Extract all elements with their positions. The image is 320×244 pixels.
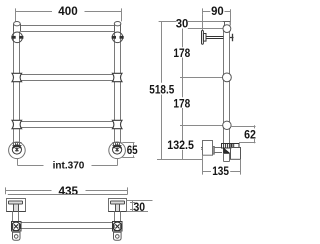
svg-text:435: 435: [59, 184, 79, 198]
dimension 135: [203, 155, 241, 174]
svg-text:90: 90: [211, 4, 224, 18]
side wall plate top bracket: [202, 31, 207, 45]
svg-text:135: 135: [212, 164, 229, 178]
left wall flange: [9, 142, 26, 159]
valve wall box: [201, 141, 213, 156]
right wall flange: [109, 142, 126, 159]
valve outlet box: [231, 148, 241, 160]
right plate T detail: [109, 201, 127, 212]
top bar: [21, 26, 115, 32]
valve knurled nut: [222, 144, 232, 149]
valve down pipe: [224, 153, 230, 161]
left stem tube: [13, 212, 19, 222]
left wall bracket symbol: [11, 32, 23, 43]
side bottom bar circle: [223, 121, 231, 129]
svg-text:65: 65: [127, 143, 138, 157]
dimension 65: [122, 143, 134, 158]
svg-text:518.5: 518.5: [149, 82, 174, 96]
chain dimension line: [180, 29, 186, 160]
right plate: [109, 199, 127, 212]
extension line middle bar: [180, 77, 223, 79]
svg-text:30: 30: [176, 17, 189, 31]
wall line: [8, 194, 128, 196]
left plate: [7, 199, 26, 212]
middle bar left sleeve: [12, 73, 22, 81]
bottom bar right sleeve: [112, 120, 122, 128]
right flange cluster: [113, 222, 123, 232]
right post nut: [113, 143, 122, 146]
dimension 62: [230, 125, 255, 143]
dimension 30 top view: [127, 201, 153, 212]
svg-text:int.370: int.370: [53, 159, 85, 171]
dimension 435: [6, 187, 128, 194]
svg-text:178: 178: [173, 46, 190, 60]
right wall bracket symbol: [112, 32, 124, 43]
valve right cap box: [232, 144, 239, 148]
svg-text:62: 62: [244, 127, 256, 141]
30 tube bottom extension line: [188, 28, 223, 30]
bottom bar left sleeve: [12, 120, 22, 128]
side post cap: [223, 22, 231, 26]
svg-text:30: 30: [134, 200, 146, 214]
dimension 400: [16, 8, 122, 21]
middle bar right sleeve: [112, 73, 122, 81]
right corner fitting cap: [114, 22, 121, 32]
left post nut: [13, 143, 22, 146]
dimension int.370: [18, 159, 118, 166]
side post: [224, 26, 230, 144]
side middle bar circle: [223, 73, 232, 82]
side bracket arm: [206, 37, 223, 39]
right bottom lug: [114, 232, 122, 240]
left bottom lug: [13, 232, 21, 240]
right stem tube: [115, 212, 121, 222]
top view rail tube: [21, 223, 113, 229]
middle bar: [21, 75, 114, 81]
overall top extension line: [159, 21, 231, 23]
dimension 518.5 line: [159, 22, 165, 160]
svg-text:400: 400: [58, 4, 78, 18]
left corner fitting cap: [14, 22, 21, 32]
side bracket clamp behind post: [230, 34, 234, 42]
left flange cluster: [12, 222, 22, 232]
dimension 90: [203, 8, 231, 21]
svg-text:178: 178: [173, 96, 190, 110]
overall bottom extension line: [157, 159, 203, 161]
side top bar circle: [223, 25, 231, 33]
valve dark wedge body: [224, 148, 230, 153]
left plate T detail: [7, 201, 26, 212]
left post: [14, 32, 20, 143]
valve pipe to wall: [213, 147, 223, 155]
bottom bar: [21, 122, 114, 128]
right post: [115, 32, 121, 143]
90 right extension: [202, 15, 204, 31]
extension line bottom bar: [180, 125, 224, 127]
svg-text:132.5: 132.5: [167, 138, 194, 152]
